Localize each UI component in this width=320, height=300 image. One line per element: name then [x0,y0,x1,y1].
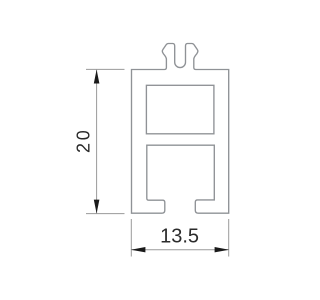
profile outer outline [132,44,229,214]
dim 20: bottom arrow [94,200,100,214]
dim 20: bottom extension line [86,213,125,215]
dim 20: top arrow [94,70,100,84]
dim 20: dimension line [96,70,98,214]
dim 20: top extension line [86,68,125,70]
dim 13.5: left extension line [130,219,132,257]
svg-text:20: 20 [74,127,94,153]
svg-text:13.5: 13.5 [160,226,199,248]
dim 13.5: right extension line [228,219,230,257]
dim 13.5: left arrow [131,247,146,252]
dim 13.5: dimension line [131,249,228,251]
dim 13.5: right arrow [215,247,230,252]
profile upper window [146,85,214,134]
